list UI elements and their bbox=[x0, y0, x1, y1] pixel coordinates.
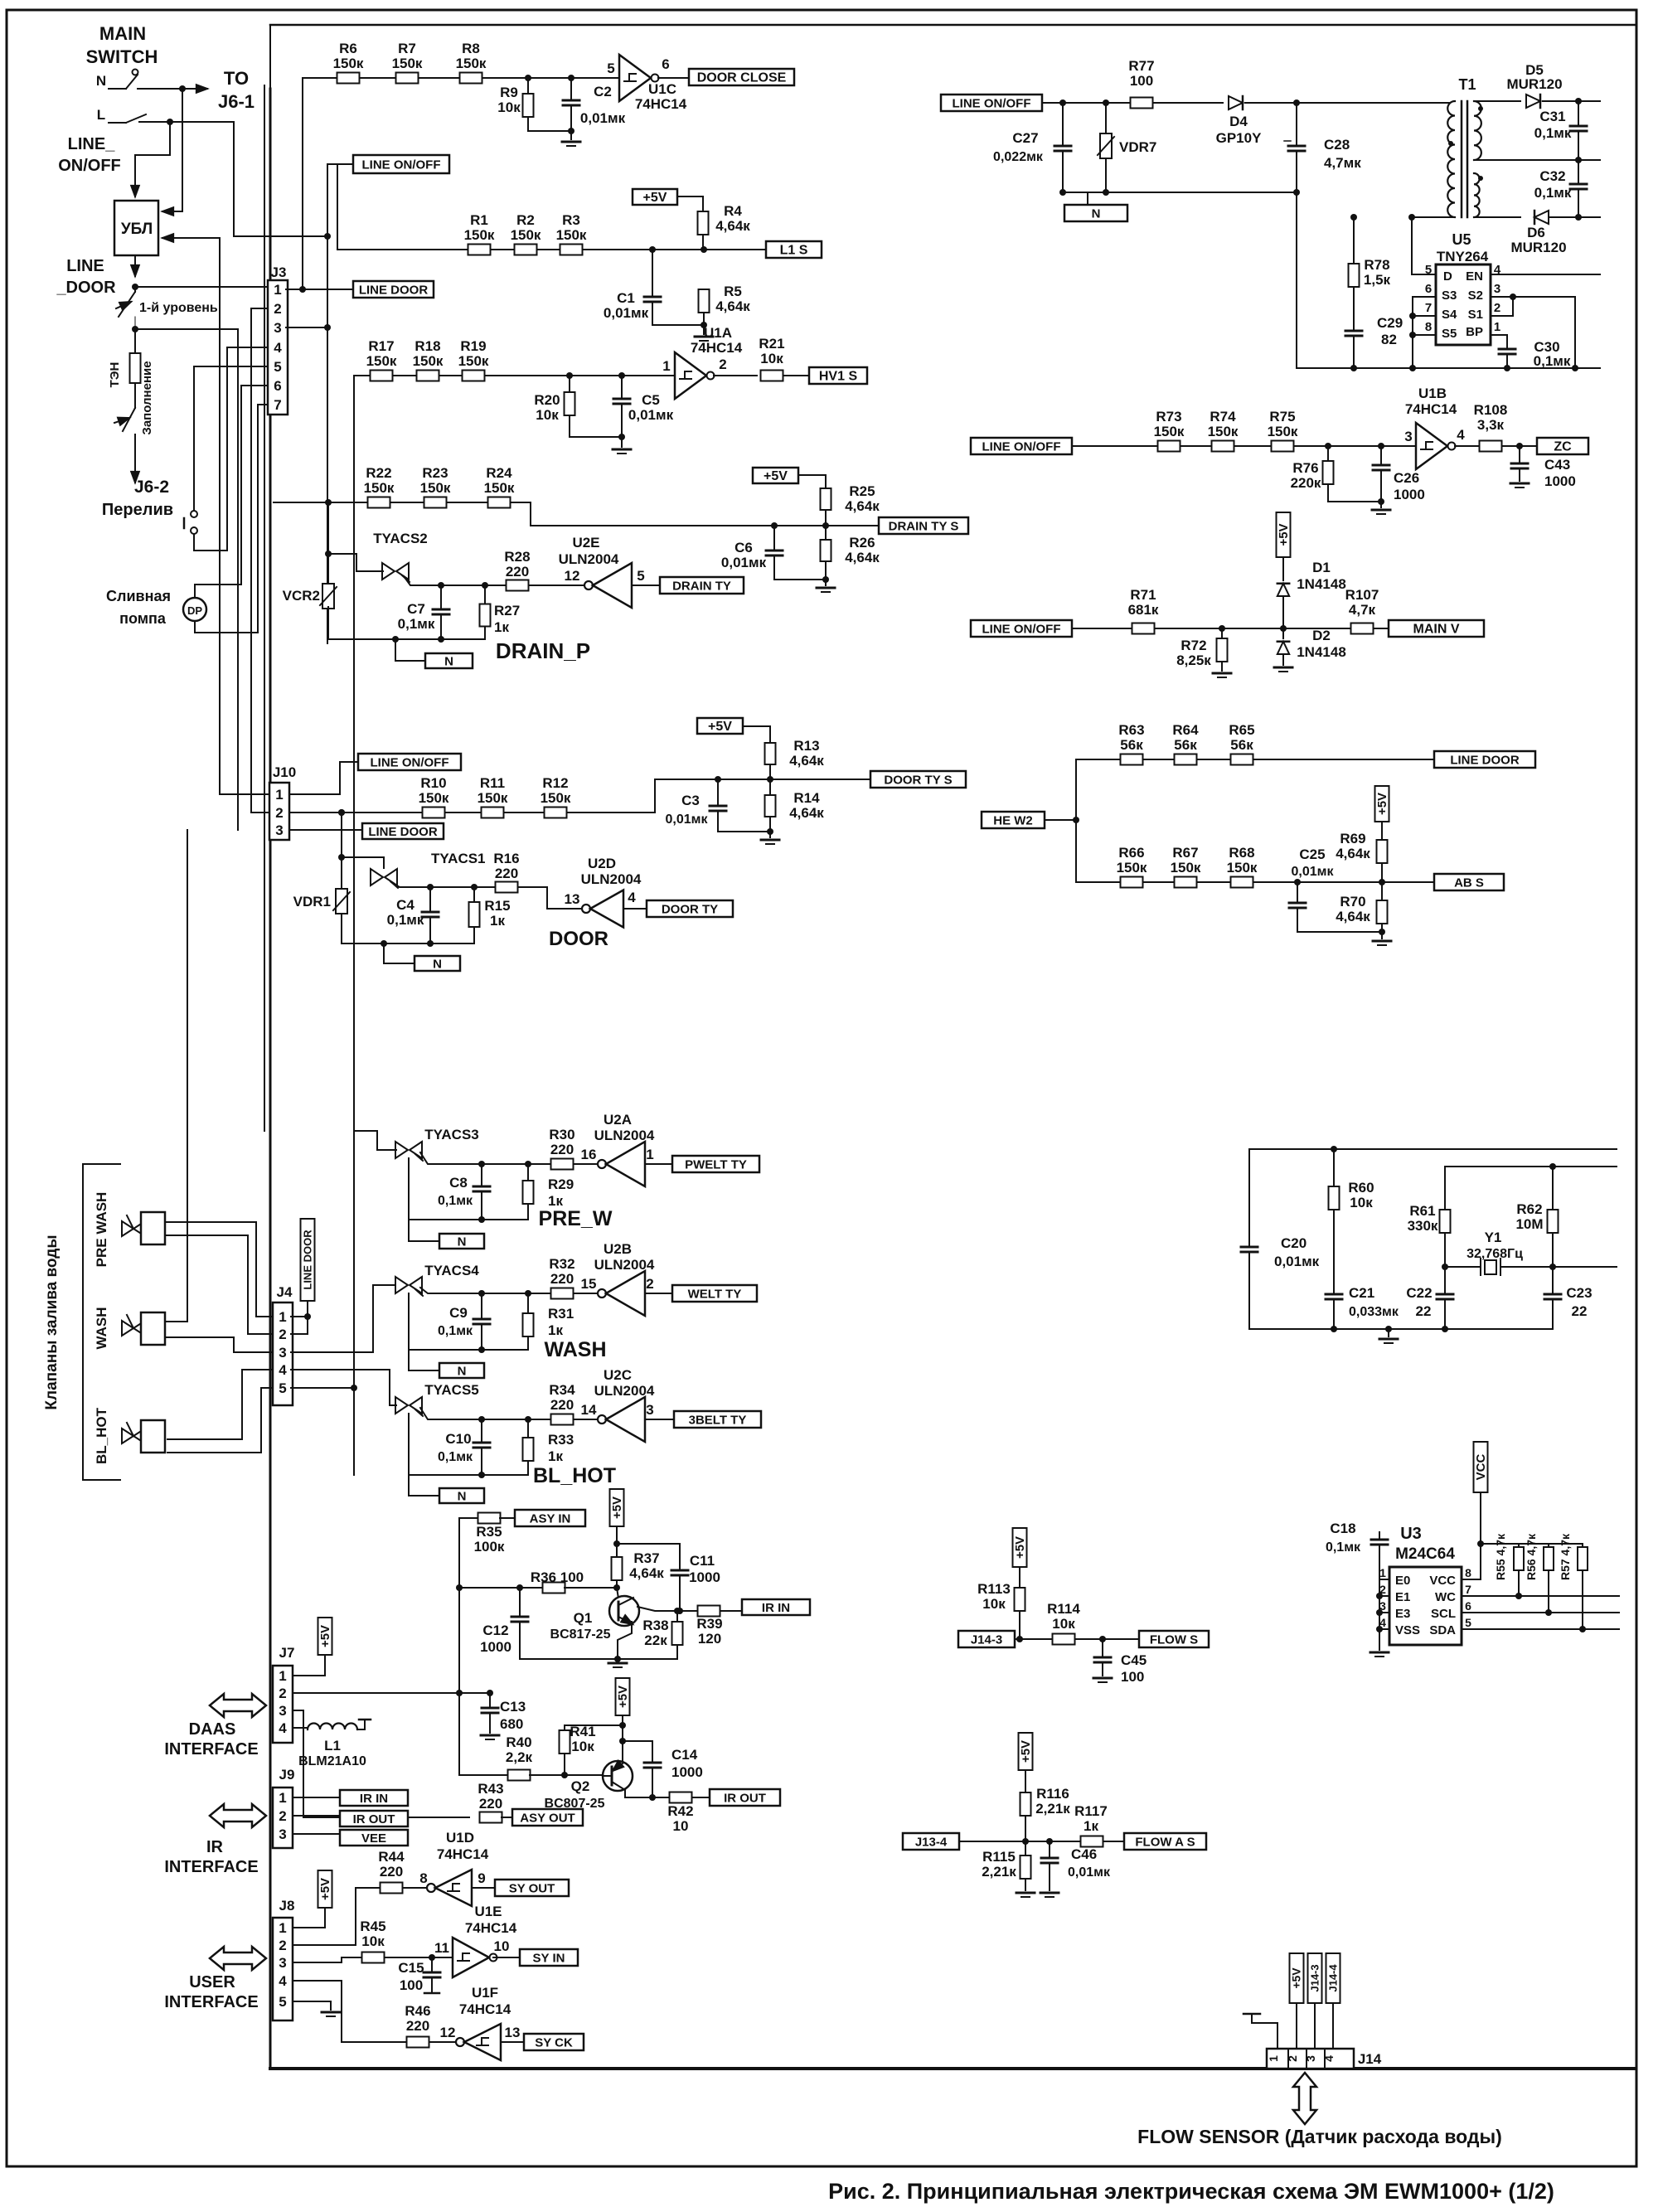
svg-text:N: N bbox=[458, 1235, 467, 1249]
svg-text:4: 4 bbox=[279, 1720, 287, 1736]
svg-text:TYACS2: TYACS2 bbox=[373, 531, 428, 546]
wire primary bottom bbox=[1448, 216, 1450, 218]
svg-text:LINE DOOR: LINE DOOR bbox=[301, 1230, 313, 1290]
wire psu input bbox=[1042, 102, 1132, 104]
label 3BELT TY net bbox=[674, 1411, 761, 1428]
capacitor C4 bbox=[427, 884, 434, 890]
svg-text:R44: R44 bbox=[378, 1849, 405, 1865]
wire U3 VCC pin bbox=[1462, 1579, 1481, 1580]
label LINE ON/OFF net (zc) bbox=[971, 438, 1072, 454]
svg-text:+5V: +5V bbox=[708, 720, 732, 734]
label ASY IN net bbox=[515, 1510, 585, 1526]
svg-text:R17: R17 bbox=[368, 338, 394, 354]
svg-text:R42: R42 bbox=[667, 1803, 693, 1819]
svg-text:+5V: +5V bbox=[1290, 1967, 1303, 1989]
resistor R62 bbox=[1549, 1163, 1556, 1170]
svg-text:C10: C10 bbox=[445, 1431, 471, 1447]
svg-text:TYACS4: TYACS4 bbox=[424, 1263, 479, 1278]
svg-text:74HC14: 74HC14 bbox=[437, 1846, 489, 1862]
svg-text:150к: 150к bbox=[364, 480, 395, 496]
arrow DAAS bbox=[210, 1694, 266, 1717]
svg-text:330к: 330к bbox=[1408, 1218, 1438, 1234]
svg-text:+5V: +5V bbox=[318, 1625, 332, 1647]
svg-text:+5V: +5V bbox=[764, 469, 788, 483]
label +5V (main v) bbox=[1277, 512, 1291, 557]
svg-text:LINE DOOR: LINE DOOR bbox=[368, 825, 438, 839]
svg-text:TYACS3: TYACS3 bbox=[424, 1127, 479, 1142]
svg-text:C20: C20 bbox=[1281, 1235, 1307, 1251]
svg-text:J13-4: J13-4 bbox=[915, 1835, 948, 1849]
svg-text:1к: 1к bbox=[548, 1322, 563, 1338]
wire DAAS data riser bbox=[458, 1518, 460, 1775]
svg-text:VDR1: VDR1 bbox=[293, 894, 331, 910]
svg-text:C25: C25 bbox=[1299, 846, 1325, 862]
bottom rail thick bbox=[270, 2067, 1635, 2070]
svg-text:0,01мк: 0,01мк bbox=[721, 555, 767, 570]
svg-text:R16: R16 bbox=[493, 851, 519, 866]
svg-text:C43: C43 bbox=[1544, 457, 1570, 473]
label SY IN net bbox=[520, 1949, 578, 1966]
svg-text:1к: 1к bbox=[548, 1448, 563, 1464]
label LINE ON/OFF net (psu) bbox=[941, 95, 1042, 111]
wire secondary top to D5 bbox=[1474, 100, 1520, 102]
svg-text:1: 1 bbox=[1494, 320, 1500, 334]
svg-text:1,5к: 1,5к bbox=[1364, 272, 1391, 288]
svg-text:WASH: WASH bbox=[94, 1307, 109, 1350]
wire J4 pin5 to main riser bbox=[291, 1387, 354, 1389]
wire U5 drain bbox=[1412, 217, 1436, 274]
svg-text:R2: R2 bbox=[516, 212, 535, 228]
svg-text:0,1мк: 0,1мк bbox=[438, 1324, 473, 1338]
ground AB S bbox=[1381, 932, 1383, 939]
switch 1-y uroven (level 1) bbox=[132, 284, 138, 290]
svg-text:0,1мк: 0,1мк bbox=[387, 912, 424, 928]
svg-text:INTERFACE: INTERFACE bbox=[164, 1858, 258, 1876]
svg-text:6: 6 bbox=[1425, 282, 1432, 296]
svg-text:IR OUT: IR OUT bbox=[724, 1791, 766, 1805]
svg-text:FLOW A S: FLOW A S bbox=[1135, 1835, 1195, 1849]
svg-text:R6: R6 bbox=[339, 41, 357, 56]
svg-text:R25: R25 bbox=[849, 483, 875, 499]
svg-text:R115: R115 bbox=[982, 1849, 1016, 1865]
wire J8 pin3 to R45 bbox=[293, 1957, 361, 1962]
wire Q2 emitter out bbox=[625, 1790, 670, 1797]
svg-text:R107: R107 bbox=[1345, 587, 1379, 603]
label N net (door) bbox=[414, 956, 460, 971]
svg-text:1N4148: 1N4148 bbox=[1297, 576, 1346, 592]
wire LINE ON/OFF drop to R1 row bbox=[337, 164, 471, 250]
wire LINE_ON/OFF into door lock bbox=[135, 122, 170, 155]
svg-text:R45: R45 bbox=[360, 1919, 385, 1934]
svg-text:0,022мк: 0,022мк bbox=[993, 150, 1044, 164]
wire N rail blhot bbox=[409, 1474, 528, 1476]
varistor VDR1 bbox=[341, 857, 342, 889]
svg-text:R66: R66 bbox=[1118, 845, 1144, 861]
svg-text:J6-2: J6-2 bbox=[134, 478, 169, 497]
svg-text:1к: 1к bbox=[490, 913, 505, 929]
svg-text:U1A: U1A bbox=[704, 325, 732, 341]
svg-text:R32: R32 bbox=[549, 1256, 574, 1272]
svg-text:DOOR TY S: DOOR TY S bbox=[884, 773, 952, 787]
label WELT TY net bbox=[672, 1285, 757, 1302]
svg-text:N: N bbox=[458, 1364, 467, 1378]
wire flow a s row bbox=[959, 1841, 1124, 1842]
svg-text:DOOR TY: DOOR TY bbox=[662, 902, 718, 916]
svg-text:L1: L1 bbox=[324, 1738, 341, 1754]
svg-text:IR IN: IR IN bbox=[762, 1601, 790, 1615]
svg-text:1: 1 bbox=[646, 1147, 653, 1162]
svg-text:5: 5 bbox=[279, 1994, 286, 2010]
svg-text:R11: R11 bbox=[480, 775, 505, 791]
label +5V (ab s) bbox=[1375, 786, 1389, 822]
svg-text:4,64к: 4,64к bbox=[845, 498, 880, 514]
svg-text:E0: E0 bbox=[1395, 1574, 1410, 1588]
svg-text:TYACS1: TYACS1 bbox=[431, 851, 486, 866]
svg-text:Q2: Q2 bbox=[571, 1778, 590, 1794]
svg-text:R31: R31 bbox=[548, 1306, 574, 1322]
svg-text:1-й уровень: 1-й уровень bbox=[139, 301, 218, 315]
wire J4 pin3 riser to TYACS4 bbox=[291, 1285, 395, 1352]
svg-text:10к: 10к bbox=[361, 1933, 385, 1949]
resistor R72 bbox=[1219, 625, 1225, 632]
label J14-4 vertical bbox=[1326, 1953, 1340, 2003]
svg-text:2,21к: 2,21к bbox=[1035, 1801, 1070, 1817]
svg-text:T1: T1 bbox=[1458, 76, 1476, 93]
wire N into UBL bbox=[182, 89, 183, 211]
svg-text:0,1мк: 0,1мк bbox=[1534, 353, 1571, 369]
svg-text:C29: C29 bbox=[1377, 315, 1403, 331]
svg-text:R29: R29 bbox=[548, 1176, 574, 1192]
svg-text:D2: D2 bbox=[1312, 628, 1331, 643]
svg-text:C28: C28 bbox=[1324, 137, 1350, 153]
svg-text:220: 220 bbox=[406, 2018, 429, 2034]
svg-text:2: 2 bbox=[279, 1808, 286, 1824]
svg-text:13: 13 bbox=[565, 891, 580, 907]
svg-text:R9: R9 bbox=[500, 85, 518, 100]
svg-text:0,1мк: 0,1мк bbox=[1326, 1540, 1361, 1555]
svg-text:SDA: SDA bbox=[1429, 1623, 1456, 1637]
svg-text:82: 82 bbox=[1381, 332, 1397, 347]
svg-text:LINE ON/OFF: LINE ON/OFF bbox=[982, 622, 1061, 636]
wire J8 pin2 to U1D bbox=[293, 1888, 356, 1945]
svg-text:R63: R63 bbox=[1118, 722, 1144, 738]
svg-text:DAAS: DAAS bbox=[189, 1720, 236, 1739]
svg-text:74HC14: 74HC14 bbox=[635, 96, 687, 112]
wire osc bottom rail bbox=[1249, 1328, 1553, 1330]
svg-text:12: 12 bbox=[440, 2025, 456, 2040]
svg-text:9: 9 bbox=[478, 1870, 485, 1886]
svg-text:74HC14: 74HC14 bbox=[465, 1920, 517, 1936]
wire to DRAIN TY S row bbox=[531, 502, 879, 526]
svg-text:1000: 1000 bbox=[1394, 487, 1425, 502]
capacitor C7 bbox=[438, 582, 444, 589]
svg-text:3: 3 bbox=[646, 1402, 653, 1418]
svg-text:J14-3: J14-3 bbox=[971, 1632, 1002, 1647]
svg-text:LINE_: LINE_ bbox=[68, 135, 116, 153]
svg-text:220: 220 bbox=[506, 564, 529, 580]
svg-text:C4: C4 bbox=[396, 897, 414, 913]
svg-text:R67: R67 bbox=[1172, 845, 1198, 861]
svg-text:4,7к: 4,7к bbox=[1349, 602, 1376, 618]
svg-text:J10: J10 bbox=[273, 764, 296, 780]
svg-text:4: 4 bbox=[279, 1973, 287, 1989]
svg-text:1: 1 bbox=[279, 1668, 286, 1684]
wire valve wash bbox=[165, 830, 187, 1322]
resistor R27 bbox=[482, 582, 488, 589]
wire N rail psu bbox=[1063, 192, 1297, 193]
wire UBL output LINE_DOOR bbox=[134, 255, 136, 276]
label LINE DOOR net (J10) bbox=[362, 823, 444, 839]
arrow IR bbox=[210, 1804, 266, 1827]
svg-text:3: 3 bbox=[1494, 282, 1500, 296]
svg-text:R20: R20 bbox=[534, 392, 560, 408]
label J13-4 net bbox=[903, 1833, 959, 1850]
svg-text:0,01мк: 0,01мк bbox=[628, 407, 674, 423]
svg-text:R68: R68 bbox=[1229, 845, 1254, 861]
wire osc top rail bbox=[1249, 1148, 1617, 1150]
label +5V bbox=[633, 189, 677, 205]
svg-text:R1: R1 bbox=[470, 212, 488, 228]
svg-text:3: 3 bbox=[1404, 429, 1412, 444]
label +5V (flow s) bbox=[1013, 1528, 1027, 1567]
svg-text:2: 2 bbox=[719, 357, 726, 372]
svg-text:R4: R4 bbox=[724, 203, 742, 219]
label IR IN net (j9) bbox=[293, 1797, 340, 1798]
svg-text:0,1мк: 0,1мк bbox=[438, 1450, 473, 1464]
svg-text:R13: R13 bbox=[793, 738, 819, 754]
wire R55-57 top rail bbox=[1477, 1540, 1484, 1547]
svg-text:R69: R69 bbox=[1340, 831, 1365, 846]
svg-text:2: 2 bbox=[646, 1276, 653, 1292]
wire R66 row bbox=[1076, 881, 1434, 883]
wire +5V to R4 bbox=[677, 196, 703, 211]
svg-text:13: 13 bbox=[505, 2025, 521, 2040]
svg-text:C32: C32 bbox=[1539, 168, 1565, 184]
svg-text:220к: 220к bbox=[1291, 475, 1321, 491]
capacitor C2 bbox=[568, 75, 574, 81]
svg-text:U1B: U1B bbox=[1418, 386, 1447, 401]
svg-text:1: 1 bbox=[274, 282, 281, 298]
svg-text:6: 6 bbox=[1465, 1599, 1471, 1613]
wire zc row bbox=[1072, 445, 1416, 447]
svg-text:R15: R15 bbox=[484, 898, 510, 914]
svg-text:R40: R40 bbox=[506, 1734, 531, 1750]
svg-text:C11: C11 bbox=[690, 1553, 715, 1569]
svg-text:4: 4 bbox=[1322, 2055, 1336, 2062]
label DOOR CLOSE net bbox=[689, 69, 794, 85]
overflow switch Perelive bbox=[191, 511, 197, 517]
svg-text:IR: IR bbox=[206, 1838, 224, 1856]
svg-text:3: 3 bbox=[279, 1955, 286, 1971]
svg-text:R74: R74 bbox=[1210, 409, 1236, 424]
svg-text:2: 2 bbox=[279, 1938, 286, 1953]
svg-text:4,64к: 4,64к bbox=[789, 753, 824, 769]
svg-text:IR OUT: IR OUT bbox=[353, 1812, 395, 1826]
svg-text:S2: S2 bbox=[1468, 289, 1483, 303]
wire primary top bbox=[1297, 102, 1449, 104]
svg-text:R3: R3 bbox=[562, 212, 580, 228]
svg-text:2: 2 bbox=[1494, 301, 1500, 315]
svg-text:R71: R71 bbox=[1130, 587, 1156, 603]
svg-text:C9: C9 bbox=[449, 1305, 468, 1321]
svg-text:S3: S3 bbox=[1442, 289, 1457, 303]
svg-text:0,1мк: 0,1мк bbox=[438, 1194, 473, 1208]
svg-text:56к: 56к bbox=[1230, 737, 1253, 753]
svg-text:R27: R27 bbox=[494, 603, 520, 618]
resistor R29 bbox=[525, 1161, 531, 1167]
wires to J14 bbox=[1296, 2003, 1297, 2049]
label IR IN net bbox=[742, 1599, 810, 1615]
svg-text:+5V: +5V bbox=[1375, 793, 1389, 815]
wire J8 pin1 +5V bbox=[293, 1908, 325, 1928]
wire J7 pin1 +5V bbox=[293, 1655, 325, 1676]
top bus wire bbox=[270, 24, 1635, 27]
label HV1 S net bbox=[809, 367, 867, 384]
label DOOR TY net bbox=[647, 900, 733, 917]
svg-text:4,64к: 4,64к bbox=[715, 218, 750, 234]
svg-text:3: 3 bbox=[279, 1345, 286, 1361]
svg-text:4,64к: 4,64к bbox=[1336, 909, 1370, 924]
svg-text:R26: R26 bbox=[849, 535, 875, 551]
svg-text:DOOR: DOOR bbox=[549, 928, 608, 950]
wire bus into UBL lower bbox=[219, 238, 221, 794]
capacitor C12 bbox=[516, 1584, 523, 1591]
label DRAIN TY net bbox=[660, 577, 744, 594]
svg-text:U2A: U2A bbox=[604, 1112, 632, 1128]
svg-text:C6: C6 bbox=[734, 540, 753, 555]
label HE W2 net bbox=[982, 812, 1045, 828]
label IR OUT net bbox=[710, 1789, 780, 1806]
svg-text:TNY264: TNY264 bbox=[1437, 249, 1489, 264]
ground osc bbox=[1385, 1326, 1392, 1332]
svg-text:3: 3 bbox=[279, 1826, 286, 1842]
svg-text:22: 22 bbox=[1416, 1303, 1432, 1319]
ground U3 bbox=[1370, 1652, 1389, 1654]
svg-text:1000: 1000 bbox=[1544, 473, 1576, 489]
svg-text:U2C: U2C bbox=[604, 1367, 632, 1383]
wire drop to R22 row bbox=[327, 327, 328, 643]
svg-text:0,1мк: 0,1мк bbox=[1534, 125, 1572, 141]
svg-text:WELT TY: WELT TY bbox=[688, 1287, 742, 1301]
svg-text:C8: C8 bbox=[449, 1175, 468, 1191]
svg-text:N: N bbox=[433, 957, 442, 971]
label +5V bbox=[753, 468, 798, 483]
label ASY OUT net bbox=[512, 1809, 583, 1826]
svg-text:1: 1 bbox=[1379, 1566, 1386, 1579]
wire R1 row bbox=[471, 249, 766, 250]
capacitor C25 bbox=[1294, 879, 1301, 885]
svg-text:+5V: +5V bbox=[318, 1878, 332, 1900]
svg-text:12: 12 bbox=[565, 568, 580, 584]
svg-text:10к: 10к bbox=[982, 1596, 1006, 1612]
wire J10 pin1 to LINE ON/OFF bbox=[220, 793, 269, 795]
svg-text:R10: R10 bbox=[420, 775, 446, 791]
wire L node bbox=[167, 119, 173, 125]
wire valve prewash bbox=[165, 1222, 273, 1317]
wire +5V to R25 bbox=[798, 475, 826, 490]
svg-text:10к: 10к bbox=[1052, 1616, 1075, 1632]
svg-text:VSS: VSS bbox=[1395, 1623, 1420, 1637]
svg-text:R113: R113 bbox=[977, 1581, 1011, 1597]
svg-text:LINE DOOR: LINE DOOR bbox=[359, 283, 429, 297]
wire J7 pin2 to C13 bbox=[293, 1692, 490, 1694]
svg-text:R56 4,7к: R56 4,7к bbox=[1525, 1533, 1538, 1580]
resistor R15 bbox=[471, 884, 478, 890]
svg-text:R22: R22 bbox=[366, 465, 391, 481]
wire to DOOR TY S bbox=[770, 779, 870, 780]
capacitor C14 bbox=[623, 1741, 652, 1763]
svg-text:4,64к: 4,64к bbox=[789, 805, 824, 821]
capacitor C30 bbox=[1499, 348, 1515, 351]
switch Zapolnenie (fill) bbox=[123, 408, 135, 431]
resistor R9 bbox=[525, 75, 531, 81]
svg-text:0,1мк: 0,1мк bbox=[1534, 185, 1572, 201]
wire R6 row bbox=[303, 77, 619, 79]
svg-text:C15: C15 bbox=[398, 1960, 424, 1976]
svg-text:C22: C22 bbox=[1406, 1285, 1432, 1301]
svg-text:BP: BP bbox=[1466, 325, 1483, 339]
svg-text:220: 220 bbox=[479, 1796, 502, 1812]
svg-text:220: 220 bbox=[495, 866, 518, 881]
svg-text:M24C64: M24C64 bbox=[1395, 1545, 1455, 1563]
svg-text:SCL: SCL bbox=[1431, 1607, 1456, 1621]
wire TYACS5 return bbox=[408, 1414, 410, 1475]
svg-text:2: 2 bbox=[274, 301, 281, 317]
svg-text:R65: R65 bbox=[1229, 722, 1254, 738]
svg-text:PRE WASH: PRE WASH bbox=[94, 1192, 109, 1268]
wire N rail prew bbox=[409, 1219, 528, 1220]
wire J7 pin3 down bbox=[293, 1710, 303, 1743]
svg-text:5: 5 bbox=[637, 568, 644, 584]
svg-text:J3: J3 bbox=[271, 264, 287, 280]
psu ground rail bbox=[1297, 367, 1600, 369]
wire U1C out bbox=[658, 77, 689, 79]
label IR OUT net (j9) bbox=[293, 1815, 340, 1817]
svg-text:100: 100 bbox=[1121, 1669, 1144, 1685]
wire N to TO J6-1 arrow bbox=[179, 85, 186, 92]
label N net (psu) bbox=[1087, 192, 1088, 205]
svg-text:150к: 150к bbox=[556, 227, 587, 243]
label PWELT TY net bbox=[672, 1156, 759, 1172]
svg-text:150к: 150к bbox=[541, 790, 571, 806]
svg-text:10: 10 bbox=[673, 1818, 689, 1834]
wire J3 pin1 LINE DOOR bbox=[135, 286, 268, 288]
svg-text:Заполнение: Заполнение bbox=[140, 361, 154, 434]
svg-text:8: 8 bbox=[1465, 1566, 1471, 1579]
svg-text:ASY IN: ASY IN bbox=[530, 1511, 571, 1526]
svg-text:32,768Гц: 32,768Гц bbox=[1467, 1247, 1523, 1261]
svg-text:150к: 150к bbox=[420, 480, 451, 496]
svg-text:ULN2004: ULN2004 bbox=[581, 871, 642, 887]
wire R78 branch bbox=[1350, 214, 1357, 221]
capacitor C27 bbox=[1059, 99, 1066, 106]
label +5V vertical (j14) bbox=[1290, 1953, 1304, 2003]
svg-text:WC: WC bbox=[1435, 1590, 1456, 1604]
label J14-3 net bbox=[958, 1631, 1015, 1647]
svg-text:150к: 150к bbox=[1227, 860, 1258, 876]
svg-text:74HC14: 74HC14 bbox=[691, 340, 743, 356]
svg-text:150к: 150к bbox=[511, 227, 541, 243]
svg-text:22к: 22к bbox=[644, 1632, 667, 1648]
svg-text:3: 3 bbox=[1304, 2055, 1317, 2062]
wire +5V q1 bbox=[616, 1526, 618, 1544]
svg-text:4: 4 bbox=[1457, 427, 1465, 443]
label FLOW S net bbox=[1139, 1631, 1209, 1647]
svg-text:R57 4,7к: R57 4,7к bbox=[1559, 1533, 1572, 1580]
label N net (bl hot) bbox=[439, 1488, 484, 1503]
svg-text:0,01мк: 0,01мк bbox=[1068, 1865, 1111, 1880]
svg-text:R73: R73 bbox=[1156, 409, 1181, 424]
